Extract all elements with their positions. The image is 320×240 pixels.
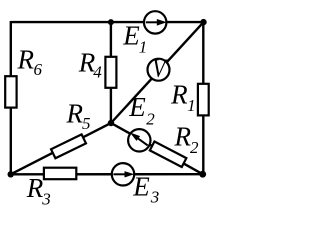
svg-text:E: E xyxy=(128,92,146,122)
svg-text:2: 2 xyxy=(190,138,199,157)
svg-text:2: 2 xyxy=(146,110,155,129)
source E2 xyxy=(128,129,150,151)
source E1 xyxy=(144,11,167,33)
wire R4 branch: top junction to middle node xyxy=(110,22,112,123)
svg-text:E: E xyxy=(132,172,150,202)
svg-text:4: 4 xyxy=(93,63,102,82)
node top-right xyxy=(200,19,206,25)
svg-text:R: R xyxy=(26,173,44,203)
node bottom-right xyxy=(199,171,206,178)
svg-text:E: E xyxy=(122,20,140,50)
resistor R2 xyxy=(150,142,187,167)
svg-text:1: 1 xyxy=(139,38,148,57)
wire left: TL to BL xyxy=(10,21,12,174)
resistor R6 xyxy=(5,76,16,107)
resistor R1 xyxy=(198,84,209,116)
wire diagonal: TR to middle node (voltmeter branch) xyxy=(111,22,204,123)
voltmeter V xyxy=(148,56,170,84)
wire bottom: BL to BR xyxy=(11,173,203,176)
svg-text:6: 6 xyxy=(34,60,43,79)
source E3 xyxy=(112,163,134,185)
node middle xyxy=(108,120,114,126)
wire top: TL to TR xyxy=(11,21,204,23)
svg-text:R: R xyxy=(170,79,188,109)
svg-text:3: 3 xyxy=(41,189,51,207)
resistor R4 xyxy=(105,57,116,88)
svg-text:3: 3 xyxy=(150,188,160,207)
svg-text:1: 1 xyxy=(187,96,196,115)
wire right: TR to BR xyxy=(202,22,204,174)
wire diagonal: middle node to BR (E2/R2 branch) xyxy=(111,123,203,174)
wire diagonal: BL to middle node (R5 branch) xyxy=(11,123,111,174)
svg-text:R: R xyxy=(66,99,84,129)
svg-text:R: R xyxy=(17,45,35,75)
node top junction (R4 / top wire) xyxy=(108,19,114,25)
svg-text:5: 5 xyxy=(82,114,91,133)
svg-text:R: R xyxy=(174,122,192,152)
resistor R3 xyxy=(44,168,76,180)
node bottom-left xyxy=(8,171,14,177)
resistor R5 xyxy=(51,134,86,158)
